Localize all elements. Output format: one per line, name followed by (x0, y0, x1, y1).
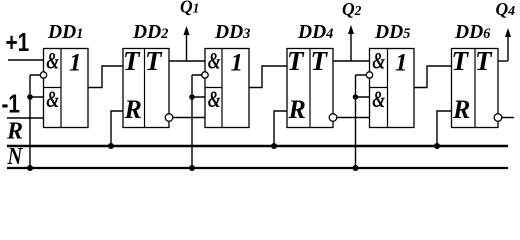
inverting output bubble DD2 (165, 114, 173, 122)
pin label & (DD1 bottom) (46, 87, 59, 112)
wire DD2 R input from R bus (111, 111, 123, 146)
wire DD2 Q output to DD3 pin1 (169, 60, 205, 62)
svg-text:T: T (452, 46, 470, 76)
pin label T (DD6 type) (475, 46, 493, 76)
junction stage3 pin3 (353, 94, 359, 100)
pin label R (DD4 reset) (288, 95, 306, 124)
label DD5 (374, 22, 410, 43)
output Q1 arrow (184, 26, 190, 61)
junction DD4 R bus (271, 143, 277, 149)
label DD2 (132, 22, 168, 43)
svg-text:R: R (452, 95, 470, 124)
wire carry vertical stage2 (N bus to DD3) (192, 75, 205, 168)
pin label & (DD3 bottom) (208, 87, 221, 112)
svg-text:+1: +1 (6, 28, 30, 57)
wire DD6 inverted output stub (502, 117, 514, 119)
svg-text:T: T (287, 46, 305, 76)
label DD6 (454, 22, 491, 43)
svg-text:1: 1 (69, 50, 82, 77)
junction stage2 pin3 (189, 94, 195, 100)
pin label 1 (DD5 OR) (395, 50, 408, 77)
inverting output bubble DD4 (329, 114, 337, 122)
wire DD2 inverted output to DD3 pin4 (173, 117, 205, 119)
wire DD4 R input from R bus (274, 111, 287, 146)
wire N bus (7, 167, 508, 169)
junction stage3 N bus (353, 165, 359, 171)
wire DD4 inverted output to DD5 pin4 (337, 117, 370, 119)
flip-flop DD6 (452, 49, 499, 128)
svg-text:T: T (123, 46, 141, 76)
junction stage1 pin3 (27, 94, 33, 100)
svg-text:N: N (7, 142, 23, 169)
svg-text:R: R (6, 119, 23, 145)
svg-text:DD5: DD5 (374, 22, 410, 43)
svg-text:&: & (208, 49, 221, 74)
svg-text:-1: -1 (2, 89, 20, 118)
label Q2 (342, 0, 362, 19)
inverting output bubble DD6 (494, 114, 502, 122)
svg-text:Q1: Q1 (180, 0, 199, 17)
svg-text:1: 1 (231, 50, 244, 77)
wire DD1 output to DD2 T input (88, 66, 123, 88)
wire DD6 R input from R bus (437, 111, 452, 146)
wire -1 input (7, 117, 44, 119)
wire carry vertical stage3 (N bus to DD5) (356, 75, 370, 168)
svg-text:DD2: DD2 (132, 22, 168, 43)
pin label R (DD2 reset) (124, 95, 142, 124)
pin label T (DD2 input) (123, 46, 141, 76)
pin label T (DD6 input) (452, 46, 470, 76)
pin label T (DD4 input) (287, 46, 305, 76)
svg-text:DD3: DD3 (214, 22, 250, 43)
svg-text:DD1: DD1 (47, 22, 83, 43)
svg-text:DD6: DD6 (454, 22, 491, 43)
label DD3 (214, 22, 250, 43)
output Q2 arrow (348, 25, 354, 61)
inverting input bubble DD1 pin2 (40, 72, 46, 78)
svg-text:R: R (288, 95, 306, 124)
junction stage1 N bus (27, 165, 33, 171)
pin label T (DD2 type) (145, 46, 163, 76)
label Q1 (180, 0, 199, 17)
label +1 input (6, 28, 30, 57)
label DD1 (47, 22, 83, 43)
label N bus (7, 142, 23, 169)
pin label & (DD3 top) (208, 49, 221, 74)
svg-text:&: & (372, 87, 385, 112)
output Q4 arrow (505, 28, 511, 61)
gate block DD1 (AND-OR) (44, 49, 89, 128)
pin label & (DD1 top) (46, 49, 59, 74)
gate block DD5 (AND-OR) (370, 49, 415, 128)
svg-text:1: 1 (395, 50, 408, 77)
label DD4 (297, 22, 333, 43)
wire DD3 output to DD4 T input (249, 66, 287, 88)
junction DD6 R bus (434, 143, 440, 149)
svg-text:T: T (145, 46, 163, 76)
pin label T (DD4 type) (311, 46, 329, 76)
pin label 1 (DD1 OR) (69, 50, 82, 77)
pin label 1 (DD3 OR) (231, 50, 244, 77)
svg-text:&: & (372, 49, 385, 74)
label Q4 (496, 0, 516, 19)
svg-text:&: & (208, 87, 221, 112)
wire +1 input (8, 59, 44, 61)
label R bus (6, 119, 23, 145)
flip-flop DD4 (287, 49, 333, 128)
label -1 input (2, 89, 20, 118)
wire DD4 Q output to DD5 pin1 (333, 60, 370, 62)
pin label & (DD5 top) (372, 49, 385, 74)
flip-flop DD2 (123, 49, 169, 128)
wire carry vertical stage1 (node to N bus) (30, 75, 44, 168)
svg-text:T: T (475, 46, 493, 76)
svg-text:&: & (46, 87, 59, 112)
svg-text:T: T (311, 46, 329, 76)
pin label R (DD6 reset) (452, 95, 470, 124)
wire R bus (7, 145, 508, 148)
gate block DD3 (AND-OR) (205, 49, 249, 128)
svg-text:&: & (46, 49, 59, 74)
pin label & (DD5 bottom) (372, 87, 385, 112)
junction stage2 N bus (189, 165, 195, 171)
svg-text:Q2: Q2 (342, 0, 362, 19)
junction DD2 R bus (108, 143, 114, 149)
wire DD5 output to DD6 T input (414, 66, 452, 88)
svg-text:DD4: DD4 (297, 22, 333, 43)
inverting input bubble DD5 pin2 (366, 72, 372, 78)
wire DD6 Q output (498, 60, 508, 62)
inverting input bubble DD3 pin2 (202, 72, 208, 78)
svg-text:R: R (124, 95, 142, 124)
